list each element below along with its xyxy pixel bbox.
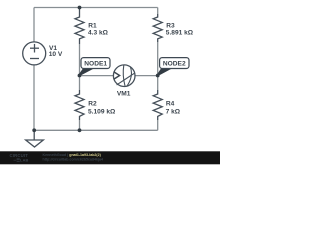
- wire NODE1 to R2 top: [79, 76, 81, 91]
- svg-text:R2: R2: [88, 101, 97, 108]
- svg-text:10 V: 10 V: [49, 51, 63, 58]
- svg-text:5.109 kΩ: 5.109 kΩ: [88, 108, 116, 115]
- svg-text:KennethGoud | gnat1-1a93-lab2(: KennethGoud | gnat1-1a93-lab2(2): [43, 153, 102, 157]
- node NODE1 flag pointer: [78, 69, 93, 77]
- svg-text:R3: R3: [166, 23, 175, 30]
- wire voltmeter to NODE2: [135, 75, 158, 77]
- svg-text:NODE1: NODE1: [84, 61, 107, 68]
- wire left column lower (V1 to bottom rail): [33, 65, 35, 130]
- node NODE2 flag pointer: [156, 69, 170, 77]
- svg-text:7 kΩ: 7 kΩ: [166, 108, 181, 115]
- resistor R2 labels: [88, 101, 116, 116]
- footer CircuitLab logo: [10, 153, 29, 163]
- svg-text:R1: R1: [88, 23, 97, 30]
- junction dot at R2 bottom: [78, 128, 82, 132]
- resistor R1: [75, 8, 84, 45]
- junction dot at ground: [32, 128, 36, 132]
- svg-text:═☰LAB: ═☰LAB: [13, 157, 29, 162]
- wire R1 bottom lead to NODE1: [79, 44, 81, 76]
- resistor R2: [75, 90, 84, 120]
- node NODE1 label box: [81, 58, 110, 69]
- wire top rail: [34, 7, 158, 9]
- voltmeter VM1 polarity mark: [114, 72, 120, 79]
- svg-text:http://circuitlab.com/c62b5ca8: http://circuitlab.com/c62b5ca84kja4: [43, 158, 104, 162]
- junction dot at R1 top: [78, 6, 82, 10]
- wire left column upper (top rail to V1): [33, 8, 35, 43]
- svg-text:4.3 kΩ: 4.3 kΩ: [88, 30, 109, 37]
- svg-text:5.891 kΩ: 5.891 kΩ: [166, 30, 194, 37]
- ground: [26, 130, 44, 147]
- wire R3 top lead: [157, 8, 159, 15]
- wire R3 bottom lead to NODE2: [157, 42, 159, 76]
- voltmeter VM1 meter arcs: [117, 65, 135, 86]
- wire R4 bottom lead: [157, 120, 159, 130]
- resistor R3: [153, 14, 162, 42]
- svg-text:R4: R4: [166, 101, 175, 108]
- junction dot at NODE2: [156, 74, 160, 78]
- wire R2 bottom lead: [79, 120, 81, 130]
- resistor R4: [153, 90, 162, 120]
- footer attribution text: [43, 153, 104, 162]
- wire bottom rail: [34, 129, 158, 131]
- svg-text:NODE2: NODE2: [163, 61, 186, 68]
- wire NODE1 to voltmeter: [80, 75, 114, 77]
- wire NODE2 to R4 top: [157, 76, 159, 91]
- voltage source V1: [23, 42, 46, 65]
- node NODE2 label box: [160, 58, 189, 69]
- resistor R1 labels: [88, 23, 109, 37]
- svg-text:VM1: VM1: [117, 91, 131, 98]
- junction dot at NODE1: [78, 74, 82, 78]
- resistor R4 labels: [166, 101, 181, 116]
- resistor R3 labels: [166, 23, 194, 37]
- voltmeter VM1: [113, 65, 135, 87]
- footer bar: [0, 151, 220, 164]
- voltage source V1 labels: [49, 45, 63, 58]
